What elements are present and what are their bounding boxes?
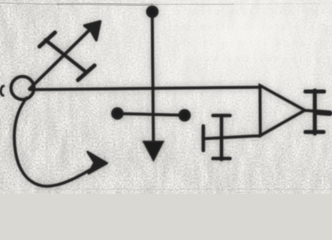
dumbbell right dot: [180, 110, 190, 120]
cross left serif: [202, 126, 206, 151]
crossbar serif upper: [40, 33, 56, 47]
svg-text:ubatta mbi cunsiogr: ubatta mbi cunsiogr: [175, 5, 325, 17]
left edge artifact: [1, 86, 4, 96]
cross wire horizontal: [203, 136, 261, 139]
right I-beam bottom serif: [306, 130, 324, 134]
cross top serif: [213, 114, 230, 118]
dumbbell segment: [117, 114, 184, 116]
crossbar serif lower: [78, 66, 95, 81]
dumbbell left dot: [112, 109, 122, 119]
dagger top dot: [147, 7, 157, 17]
right stub: [318, 112, 330, 113]
right I-beam vertical bar: [313, 91, 317, 134]
hook curve (S-curve to arrow): [14, 98, 100, 186]
arrowhead (top-right): [84, 21, 100, 40]
dagger vertical line: [152, 12, 153, 142]
crossbar on arrow: [46, 40, 87, 72]
right I-beam top serif: [306, 90, 325, 94]
dagger arrowhead (down): [143, 142, 163, 161]
arrow shaft (diagonal, up-right): [30, 25, 96, 90]
wire main horizontal: [30, 87, 261, 89]
hook arrowhead: [88, 152, 108, 174]
triangle: [260, 86, 305, 136]
cross vertical bar: [220, 116, 224, 160]
scan halo under strokes: [12, 7, 330, 187]
svg-text:ter inb sot mieo: ter inb sot mieo: [200, 53, 321, 65]
top edge hairline artifact: [0, 3, 330, 189]
ghost bleed-through text: [60, 1, 329, 65]
loop (small circle at left end): [11, 77, 34, 100]
link apex to bar: [305, 109, 314, 113]
cross bottom serif: [213, 157, 230, 161]
